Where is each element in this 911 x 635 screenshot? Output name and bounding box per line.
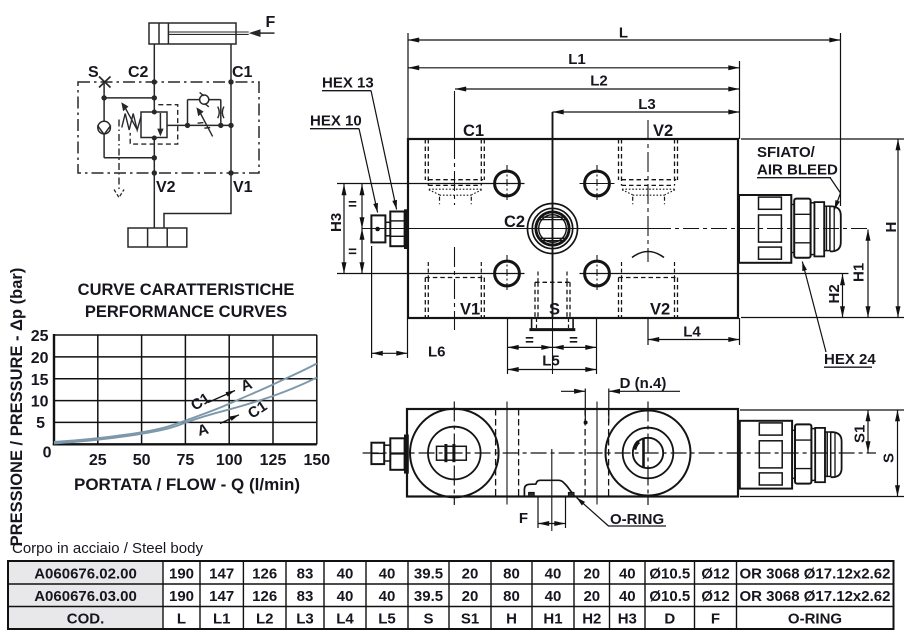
cylinder piston xyxy=(159,23,168,44)
svg-text:Corpo in acciaio / Steel body: Corpo in acciaio / Steel body xyxy=(12,540,203,557)
svg-text:39.5: 39.5 xyxy=(414,566,443,583)
svg-text:125: 125 xyxy=(260,452,287,469)
leader HEX 24 xyxy=(802,262,826,353)
dimension L1 xyxy=(408,61,740,139)
svg-text:=: = xyxy=(569,332,578,349)
curve A (upper right) xyxy=(54,364,317,443)
svg-text:50: 50 xyxy=(133,452,151,469)
port V2 bottom threads (dashed) xyxy=(619,278,678,319)
svg-text:CURVE CARATTERISTICHE: CURVE CARATTERISTICHE xyxy=(78,281,295,299)
V2 cavity chord xyxy=(642,439,645,468)
svg-text:H3: H3 xyxy=(328,213,345,232)
cylinder rod xyxy=(168,32,248,34)
fitting flange band (bottom view) xyxy=(404,435,409,474)
dimension S1 xyxy=(740,410,904,453)
test point fitting cap xyxy=(371,215,385,242)
dimension L3 xyxy=(553,111,740,113)
O-RING label xyxy=(610,511,664,528)
counterbalance valve spring xyxy=(122,114,141,131)
dimension H xyxy=(741,139,904,318)
pilot dashed box xyxy=(130,105,178,144)
svg-text:190: 190 xyxy=(169,566,194,583)
chart x axis title xyxy=(74,475,300,494)
dimension H2 xyxy=(580,274,849,318)
fixed orifice arcs xyxy=(218,107,224,119)
svg-text:39.5: 39.5 xyxy=(414,588,443,605)
svg-text:L2: L2 xyxy=(256,611,274,628)
svg-text:150: 150 xyxy=(303,452,330,469)
cartridge end dome xyxy=(830,206,841,251)
counterbalance valve flow arrow xyxy=(157,113,163,136)
svg-text:PERFORMANCE CURVES: PERFORMANCE CURVES xyxy=(85,303,287,321)
fitting cap (bottom view) xyxy=(371,443,384,464)
cylinder body xyxy=(149,23,236,44)
cartridge valve (bottom view) xyxy=(740,421,842,489)
svg-text:PORTATA / FLOW - Q (l/min): PORTATA / FLOW - Q (l/min) xyxy=(74,475,300,494)
svg-text:20: 20 xyxy=(583,588,600,605)
svg-text:F: F xyxy=(266,14,276,31)
mounting hole bottom-left xyxy=(495,261,520,286)
wire C2 from cylinder xyxy=(153,44,155,112)
svg-text:V2: V2 xyxy=(653,122,673,140)
svg-text:190: 190 xyxy=(169,588,194,605)
table caption xyxy=(12,540,203,557)
cartridge adapter block xyxy=(739,195,791,263)
svg-text:L3: L3 xyxy=(638,96,656,113)
boundary dashed box xyxy=(78,82,259,173)
svg-text:C2: C2 xyxy=(504,213,525,231)
fitting hex (bottom view) xyxy=(390,438,404,470)
svg-text:D: D xyxy=(664,611,675,628)
wire V1 down xyxy=(164,173,231,228)
V2 cavity circles xyxy=(606,411,691,496)
svg-text:L5: L5 xyxy=(542,353,560,370)
o-ring boss profile xyxy=(524,480,574,496)
wire check to V2 xyxy=(104,157,154,159)
svg-text:H: H xyxy=(506,611,517,628)
svg-text:SFIATO/: SFIATO/ xyxy=(757,144,816,161)
cavity centerlines vertical xyxy=(454,402,648,506)
svg-text:D (n.4): D (n.4) xyxy=(620,375,667,392)
svg-text:V1: V1 xyxy=(233,179,253,196)
wire V2 down xyxy=(153,173,155,228)
fitting stem (bottom view) xyxy=(384,445,390,461)
cartridge ring xyxy=(811,203,815,255)
cartridge neck xyxy=(791,205,794,253)
fitting hex xyxy=(390,212,404,247)
S port centerline xyxy=(551,449,553,531)
port S threads (dashed) xyxy=(535,282,570,318)
cartridge ring 2 xyxy=(824,206,830,250)
dimension L5 equals xyxy=(508,346,597,348)
dimension labels bottom view xyxy=(519,375,666,527)
svg-text:L6: L6 xyxy=(428,344,446,361)
svg-text:C1: C1 xyxy=(232,64,253,81)
table header column fill xyxy=(8,561,163,629)
port S boss xyxy=(529,318,575,330)
junction dots xyxy=(101,79,233,175)
svg-text:S: S xyxy=(88,64,99,81)
svg-text:HEX 24: HEX 24 xyxy=(824,351,876,368)
C1 port centerline xyxy=(454,91,456,205)
svg-text:=: = xyxy=(348,244,357,261)
svg-text:147: 147 xyxy=(209,566,234,583)
svg-text:20: 20 xyxy=(31,350,49,367)
hole centerlines xyxy=(507,402,597,505)
dimension L4 xyxy=(648,318,740,345)
svg-text:V2: V2 xyxy=(156,179,176,196)
port C1 threads (dashed) xyxy=(425,139,484,185)
svg-text:O-RING: O-RING xyxy=(788,611,842,628)
svg-text:40: 40 xyxy=(545,588,562,605)
check valve seat xyxy=(97,125,110,134)
cartridge valve (top view) xyxy=(739,195,841,263)
svg-text:L4: L4 xyxy=(336,611,354,628)
table row 1 xyxy=(34,566,890,583)
chart y axis title xyxy=(8,268,26,547)
svg-text:83: 83 xyxy=(297,566,314,583)
svg-text:15: 15 xyxy=(31,372,49,389)
leader O-RING xyxy=(577,498,609,527)
svg-text:S: S xyxy=(423,611,433,628)
mounting hole top-right xyxy=(585,171,610,196)
horizontal centerline xyxy=(362,228,871,230)
cartridge hex nut xyxy=(794,199,810,258)
svg-text:40: 40 xyxy=(619,566,636,583)
svg-text:=: = xyxy=(525,332,534,349)
wire S-C2 connect xyxy=(104,97,154,99)
C2 vertical centerline xyxy=(552,112,554,318)
check valve ball xyxy=(98,121,111,134)
svg-text:COD.: COD. xyxy=(67,611,105,628)
spring cavity arc xyxy=(632,252,664,258)
svg-text:80: 80 xyxy=(503,566,520,583)
svg-text:OR 3068 Ø17.12x2.62: OR 3068 Ø17.12x2.62 xyxy=(740,566,891,583)
svg-text:40: 40 xyxy=(337,566,354,583)
port V2 top threads (dashed) xyxy=(619,139,678,185)
svg-text:L1: L1 xyxy=(568,51,586,68)
adjustable orifice arrow xyxy=(196,107,212,136)
svg-text:S: S xyxy=(881,453,898,463)
dimension L xyxy=(408,33,841,206)
svg-text:100: 100 xyxy=(216,452,243,469)
table row 2 xyxy=(34,588,890,605)
wire below valve xyxy=(153,138,155,174)
svg-text:A060676.02.00: A060676.02.00 xyxy=(34,566,137,583)
wire C1 from cylinder xyxy=(230,44,232,173)
svg-text:83: 83 xyxy=(297,588,314,605)
V2 cavity crescent xyxy=(634,442,638,450)
svg-text:C2: C2 xyxy=(128,64,149,81)
svg-text:Ø10.5: Ø10.5 xyxy=(649,588,690,605)
svg-text:AIR BLEED: AIR BLEED xyxy=(757,162,838,179)
svg-text:L4: L4 xyxy=(683,324,701,341)
svg-text:H1: H1 xyxy=(543,611,562,628)
svg-text:40: 40 xyxy=(379,566,396,583)
leader HEX 10 xyxy=(359,129,378,213)
svg-text:147: 147 xyxy=(209,588,234,605)
svg-text:20: 20 xyxy=(462,588,479,605)
leader air bleed xyxy=(830,178,841,210)
svg-text:HEX 13: HEX 13 xyxy=(322,75,374,92)
svg-text:75: 75 xyxy=(177,452,195,469)
svg-text:L3: L3 xyxy=(296,611,314,628)
pilot line (dash-dot) xyxy=(118,120,120,192)
counterbalance valve body xyxy=(141,112,167,138)
valve body outline (top view) xyxy=(408,139,738,318)
svg-text:20: 20 xyxy=(583,566,600,583)
svg-text:H3: H3 xyxy=(618,611,637,628)
wire valve to C1 xyxy=(167,124,231,126)
svg-text:H2: H2 xyxy=(582,611,601,628)
svg-text:F: F xyxy=(519,510,528,527)
dimension H3 xyxy=(337,184,525,274)
svg-text:A060676.03.00: A060676.03.00 xyxy=(34,588,137,605)
chart title xyxy=(78,281,295,321)
svg-text:Ø12: Ø12 xyxy=(701,566,729,583)
svg-text:40: 40 xyxy=(379,588,396,605)
valve body outline (bottom view) xyxy=(407,409,738,497)
svg-text:H: H xyxy=(883,222,900,233)
directional valve block xyxy=(128,228,187,247)
svg-text:L: L xyxy=(619,25,628,42)
chart y tick labels xyxy=(31,328,52,462)
chart grid xyxy=(54,335,317,444)
top view port labels xyxy=(460,122,673,319)
hole crosshairs vertical (dash-dot) xyxy=(507,165,597,292)
mounting hole hidden lines xyxy=(496,409,609,497)
fitting cap dot xyxy=(375,227,380,232)
spring adjust arrow xyxy=(121,102,137,129)
restrictor loop right branch xyxy=(220,100,222,126)
svg-text:OR 3068 Ø17.12x2.62: OR 3068 Ø17.12x2.62 xyxy=(740,588,891,605)
svg-text:5: 5 xyxy=(36,415,45,432)
restrictor loop left branch xyxy=(187,100,189,126)
dimension H1 xyxy=(867,230,869,318)
svg-text:S1: S1 xyxy=(461,611,479,628)
V2 port centerline xyxy=(647,120,649,262)
hole crosshairs horizontal xyxy=(580,183,615,185)
wire S branch lower xyxy=(103,135,105,158)
svg-text:L1: L1 xyxy=(213,611,231,628)
svg-text:40: 40 xyxy=(619,588,636,605)
svg-text:Ø10.5: Ø10.5 xyxy=(649,566,690,583)
cartridge cap xyxy=(814,202,824,256)
plugged port S (X symbol) xyxy=(99,77,111,88)
bypass check ball xyxy=(200,95,209,104)
dimension labels top view xyxy=(348,25,701,370)
svg-text:H1: H1 xyxy=(851,263,868,282)
pilot line dashed arrowhead xyxy=(114,190,124,198)
dimension S xyxy=(740,410,904,497)
svg-text:Ø12: Ø12 xyxy=(701,588,729,605)
svg-text:V1: V1 xyxy=(460,301,480,319)
dimension L2 xyxy=(455,88,740,90)
dimension D (n.4) xyxy=(561,389,680,424)
fitting flange band xyxy=(404,209,409,249)
svg-text:V2: V2 xyxy=(650,301,670,319)
adjustable orifice marks xyxy=(198,123,211,129)
svg-text:H2: H2 xyxy=(826,284,843,303)
svg-text:126: 126 xyxy=(252,588,277,605)
svg-text:126: 126 xyxy=(252,566,277,583)
bypass check seat marks xyxy=(200,92,209,106)
svg-text:25: 25 xyxy=(89,452,107,469)
svg-text:80: 80 xyxy=(503,588,520,605)
C1 cavity circles xyxy=(410,409,499,498)
svg-text:0: 0 xyxy=(43,445,52,462)
dimension L6 xyxy=(372,246,408,358)
mounting hole bottom-right xyxy=(585,261,610,286)
V1 port centerline xyxy=(454,247,456,330)
svg-text:L5: L5 xyxy=(378,611,396,628)
schematic labels xyxy=(88,14,276,196)
mounting hole top-left xyxy=(495,171,520,196)
svg-text:S1: S1 xyxy=(852,425,869,443)
svg-text:25: 25 xyxy=(31,328,49,345)
svg-text:L2: L2 xyxy=(590,73,608,90)
port V1 threads (dashed) xyxy=(425,278,484,319)
svg-text:40: 40 xyxy=(337,588,354,605)
svg-text:20: 20 xyxy=(462,566,479,583)
svg-text:HEX 10: HEX 10 xyxy=(310,113,362,130)
curve C1 (lower right) xyxy=(54,378,317,444)
curve annotation A-C1 lower xyxy=(196,398,271,440)
force F arrow xyxy=(249,29,275,37)
C1 cavity socket xyxy=(437,446,467,460)
bottom view centerline xyxy=(363,452,876,454)
port C2 socket chords xyxy=(540,217,565,241)
leader HEX 13 xyxy=(371,91,397,210)
svg-text:F: F xyxy=(711,611,720,628)
chart axes xyxy=(53,334,317,445)
callout labels xyxy=(310,75,876,369)
o-ring cross sections xyxy=(529,492,574,496)
svg-text:=: = xyxy=(348,196,357,213)
dimension L5 xyxy=(508,318,597,374)
wire S branch upper xyxy=(103,82,105,121)
svg-text:10: 10 xyxy=(31,394,49,411)
svg-text:L: L xyxy=(177,611,186,628)
svg-text:C1: C1 xyxy=(463,122,484,140)
svg-text:40: 40 xyxy=(545,566,562,583)
dimension F xyxy=(538,497,566,528)
svg-text:S: S xyxy=(549,301,560,319)
table grid xyxy=(8,561,894,629)
port C2 circles xyxy=(528,204,578,254)
restrictor loop top wire xyxy=(188,99,221,101)
table row 3 (legend) xyxy=(67,611,842,628)
curve annotation C1-A upper xyxy=(188,376,255,415)
svg-text:PRESSIONE / PRESSURE - Δp (bar: PRESSIONE / PRESSURE - Δp (bar) xyxy=(8,268,26,547)
dimension H3 equals xyxy=(361,184,363,274)
chart x tick labels xyxy=(89,452,330,469)
fitting stem xyxy=(385,222,390,236)
